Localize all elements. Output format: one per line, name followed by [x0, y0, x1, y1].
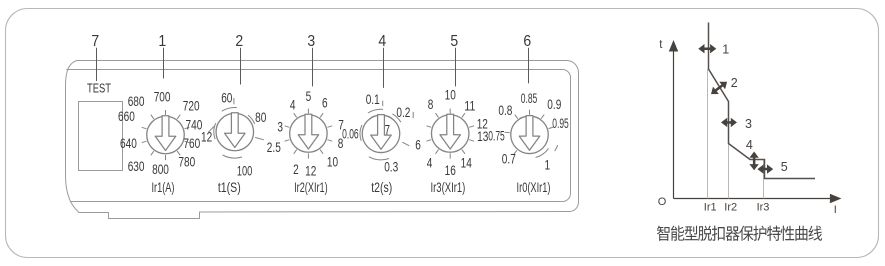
svg-text:Ir2(XIr1): Ir2(XIr1): [294, 179, 328, 195]
svg-text:O: O: [658, 196, 667, 208]
svg-text:780: 780: [178, 154, 195, 170]
svg-text:Ir3: Ir3: [757, 201, 770, 213]
svg-text:4: 4: [378, 33, 386, 50]
svg-text:7: 7: [385, 122, 390, 137]
svg-text:0.85: 0.85: [521, 90, 538, 106]
svg-text:10: 10: [445, 87, 456, 103]
svg-text:5: 5: [306, 88, 312, 104]
graph y-axis: [669, 40, 678, 199]
svg-text:7: 7: [91, 33, 99, 50]
svg-text:2: 2: [293, 161, 299, 177]
callout 6: [523, 33, 531, 83]
rotary dial Ir1(A): [118, 89, 202, 177]
svg-text:640: 640: [120, 135, 137, 151]
svg-text:760: 760: [183, 135, 200, 151]
svg-text:0.95: 0.95: [552, 115, 569, 131]
svg-text:5: 5: [781, 160, 788, 174]
tolerance arrow 1: [698, 42, 729, 56]
svg-text:8: 8: [428, 96, 434, 112]
tolerance arrow 3: [721, 117, 752, 131]
svg-text:80: 80: [255, 109, 266, 125]
svg-text:0.2: 0.2: [396, 104, 410, 120]
svg-text:4: 4: [746, 138, 753, 152]
svg-text:1: 1: [722, 42, 729, 56]
rotary dial Ir3(XIr1): [415, 87, 488, 179]
svg-text:Ir1(A): Ir1(A): [152, 179, 175, 195]
callout 4: [378, 33, 386, 88]
svg-text:t2(s): t2(s): [371, 179, 392, 195]
tolerance arrow 5: [757, 160, 787, 174]
svg-text:14: 14: [461, 155, 472, 171]
svg-text:2.5: 2.5: [267, 139, 281, 155]
rotary dial t2(s): [342, 91, 413, 174]
rotary dial Ir2(XIr1): [277, 88, 344, 179]
svg-text:Ir2: Ir2: [724, 201, 737, 213]
svg-text:740: 740: [186, 116, 203, 132]
test button: [79, 102, 123, 171]
svg-text:630: 630: [128, 158, 145, 174]
svg-text:0.75: 0.75: [488, 128, 505, 144]
trip unit panel outline: [66, 61, 579, 219]
svg-text:2: 2: [235, 33, 243, 50]
svg-text:3: 3: [307, 33, 315, 50]
svg-text:100: 100: [237, 162, 253, 178]
svg-text:0.3: 0.3: [384, 159, 398, 175]
protection characteristic curve: [709, 23, 816, 179]
callout 5: [450, 33, 458, 86]
svg-text:0.06: 0.06: [342, 126, 359, 142]
tolerance arrow 4: [746, 138, 759, 170]
svg-text:TEST: TEST: [87, 80, 111, 95]
guide line Ir1: [707, 69, 709, 199]
svg-text:0.1: 0.1: [366, 91, 380, 107]
svg-text:2: 2: [731, 76, 738, 90]
svg-text:10: 10: [327, 153, 338, 169]
svg-text:Ir3(XIr1): Ir3(XIr1): [431, 179, 466, 195]
svg-text:12: 12: [201, 128, 212, 144]
rotary dial t1(S): [201, 89, 281, 178]
svg-text:13: 13: [477, 128, 488, 144]
svg-text:3: 3: [277, 119, 283, 135]
svg-text:Ir1: Ir1: [704, 201, 717, 213]
callout 7: [91, 33, 99, 81]
svg-text:0.9: 0.9: [547, 96, 561, 112]
callout 2: [235, 33, 243, 85]
svg-text:Ir0(XIr1): Ir0(XIr1): [517, 179, 551, 195]
svg-text:700: 700: [154, 89, 171, 105]
svg-text:1: 1: [158, 33, 166, 50]
svg-text:800: 800: [152, 161, 169, 177]
callout 3: [307, 33, 315, 86]
svg-text:720: 720: [183, 97, 200, 113]
svg-text:12: 12: [305, 162, 316, 178]
svg-text:6: 6: [415, 137, 421, 153]
svg-text:0.7: 0.7: [502, 151, 516, 167]
caption: intelligent trip unit protection characteristic curve: [657, 226, 822, 241]
svg-text:1: 1: [545, 156, 551, 172]
svg-text:680: 680: [128, 93, 145, 109]
svg-text:16: 16: [445, 162, 456, 178]
svg-text:660: 660: [118, 108, 135, 124]
rotary dial Ir0(XIr1): [488, 90, 569, 172]
graph x-axis: [674, 194, 842, 203]
svg-text:11: 11: [464, 97, 475, 113]
svg-text:4: 4: [290, 97, 296, 113]
svg-text:t1(S): t1(S): [218, 179, 241, 195]
svg-text:4: 4: [427, 155, 433, 171]
svg-text:0.8: 0.8: [498, 102, 512, 118]
svg-text:I: I: [834, 204, 837, 216]
callout 1: [158, 33, 166, 79]
guide line Ir3: [763, 160, 765, 199]
svg-text:6: 6: [523, 33, 531, 50]
tolerance arrow 2: [711, 76, 738, 94]
panel inner face lines: [66, 70, 570, 202]
svg-text:6: 6: [322, 94, 328, 110]
guide line Ir2: [728, 144, 730, 199]
svg-text:60: 60: [221, 89, 232, 105]
svg-text:3: 3: [745, 117, 752, 131]
svg-text:5: 5: [450, 33, 458, 50]
svg-text:t: t: [659, 39, 663, 51]
